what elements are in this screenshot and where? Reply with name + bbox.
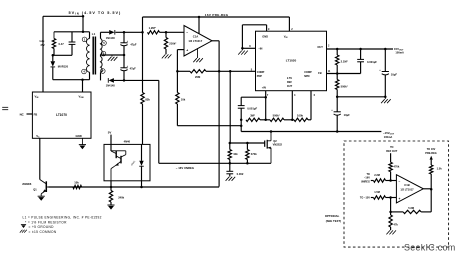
label 470k [251,152,257,156]
label 47uF lower [127,65,137,71]
svg-text:1.5k: 1.5k [437,167,443,171]
wire -15V rail [241,131,381,133]
junction 16V feed [141,31,144,34]
pin GND LT1070 [76,134,82,138]
regulator U3 LT1020 box [256,31,327,90]
ground 0.002 [226,177,236,181]
wire row right up [308,119,311,121]
wire top rectifier output [116,31,143,33]
svg-text:FB: FB [318,71,322,75]
resistor 2.2M [371,179,397,182]
wire pin4 drop [291,91,293,120]
svg-text:470k: 470k [394,165,400,169]
svg-text:PRE-REG: PRE-REG [425,152,436,155]
op-amp U1 LT1070 box [32,92,91,138]
junction VSW [81,78,84,81]
svg-text:47k: 47k [394,222,399,226]
wire -16V UNREG rail [159,162,271,164]
junction 470k bottom [246,162,249,165]
resistor 1.5M [371,196,397,199]
svg-text:0.47: 0.47 [59,42,65,46]
svg-text:5V: 5V [108,131,112,135]
label -15VOUT [383,131,395,139]
svg-text:C1B: C1B [404,183,409,187]
svg-text:GND: GND [262,34,268,38]
pin 4 primary bottom [82,69,87,74]
wire secondary top to diode [101,31,110,33]
svg-text:TO: TO [390,146,393,149]
label 216k [169,42,177,46]
junction gate rail [229,142,232,145]
svg-text:5VIN (4.5V TO 5.5V): 5VIN (4.5V TO 5.5V) [69,11,122,16]
mark left margin [2,107,8,109]
pin 4 REF OUT [287,77,296,97]
capacitor 47uF upper [120,32,127,55]
svg-text:+: + [399,197,401,201]
label MUR120 [58,64,69,68]
label L1 [92,32,96,36]
svg-text:100mA: 100mA [395,51,404,55]
junction 216k top [165,31,168,34]
wire gate drive drop [229,71,231,143]
optocoupler U2 4N46 box [104,144,150,180]
transistor Q1 2N3906 [40,180,49,197]
svg-text:−IN: −IN [258,47,262,51]
svg-text:1/2 LT1017: 1/2 LT1017 [400,188,414,192]
label 100k [297,113,303,117]
svg-text:100k: 100k [297,113,303,117]
junction 500k bottom [336,96,339,99]
label 47uF upper [127,40,137,47]
svg-text:LT1020: LT1020 [286,59,297,63]
svg-text:1.2M*: 1.2M* [149,26,157,30]
svg-text:500k*: 500k* [273,113,281,117]
svg-text:(SEE TEXT): (SEE TEXT) [326,219,341,223]
svg-text:2.1M*: 2.1M* [341,59,349,63]
wire pin7 drop [265,91,267,120]
junction C1A out 20M [218,70,221,73]
junction row pin4 [291,119,294,122]
svg-text:0.001µF: 0.001µF [247,106,257,110]
resistor 2.1M [336,49,339,74]
transistor opto darlington [111,151,126,181]
svg-text:VN2222: VN2222 [273,143,283,147]
capacitor 47uF lower [120,55,127,80]
wire OUT rail [327,48,394,50]
label 500k FB [341,84,349,88]
svg-text:NPN: NPN [304,75,309,78]
label OPTIONAL [325,214,341,223]
wire left VIN rail down [42,16,44,92]
svg-text:10k: 10k [181,98,186,102]
junction LED cathode [140,186,143,189]
label TO REF OUT [386,146,397,153]
label 20M [195,75,201,79]
pin VC LT1070 [36,134,40,139]
label -16V UNREG [176,166,194,170]
arrow 16V supply [430,156,433,160]
svg-text:47µF: 47µF [130,42,137,46]
label 10k sense [181,98,186,102]
svg-text:MUR120: MUR120 [58,64,69,68]
junction C1B plus [389,196,392,199]
svg-text:−: − [399,180,401,184]
label opto LED [130,160,136,167]
svg-text:1N4148: 1N4148 [106,36,116,40]
junction cap2 bottom [123,79,126,82]
transformer core [93,37,95,75]
svg-text:OUT: OUT [317,45,323,49]
diode 1N4148 top [109,30,115,35]
capacitor 0.47 [69,32,76,56]
diode opto LED [139,144,143,187]
pin 9 GND [242,25,270,49]
label Q1 2N3906 [22,182,37,192]
ground LT1020 -IN [238,48,248,54]
junction -15V cap [336,130,339,133]
resistor 1.5k [430,160,433,190]
pin 7 +IN [262,86,269,97]
label NC [20,113,25,117]
label 10uF minus [331,109,350,117]
ground output [381,97,391,103]
wire snubber top rail [54,31,90,33]
wire -16V drop [158,80,160,163]
label 2.1M [341,59,349,63]
resistor 470k [246,143,249,163]
svg-text:UNREG: UNREG [361,180,370,183]
resistor 10k base [73,185,82,188]
inductor L1 secondary lower [101,57,103,81]
svg-text:20M: 20M [195,75,201,79]
svg-text:2.2M: 2.2M [374,173,380,177]
pin 11 FB [318,70,331,75]
resistor 216k [164,32,167,54]
label 10k base [74,180,79,184]
junction cap1 top [123,31,126,34]
svg-text:TO −15V: TO −15V [360,197,370,200]
svg-text:OPTIONAL: OPTIONAL [325,214,340,218]
label 15VOUT [394,47,404,55]
junction 10k bottom [229,162,232,165]
label 470k ref [394,165,400,169]
svg-text:SeekIC.com: SeekIC.com [404,243,456,253]
junction center tap cap [123,54,126,57]
svg-text:1.2k: 1.2k [39,39,45,43]
pin VSW LT1070 [79,94,84,99]
pin 5 COMP PNP [251,68,265,77]
svg-text:470k: 470k [251,152,257,156]
junction primary top [82,31,85,34]
capacitor 0.001uF FB [357,49,364,74]
svg-text:4N46: 4N46 [124,140,131,144]
label 0.001uF FB [367,60,377,64]
ground 47k [386,230,396,234]
svg-text:REF: REF [287,81,292,84]
label 47k [394,222,399,226]
note film resistor [25,220,67,224]
svg-text:0.001µF: 0.001µF [367,60,377,64]
junction 0.001uF top [359,48,362,51]
resistor 10k gate [228,143,231,163]
note common [20,230,57,234]
wire 16V PRE-REG rail [143,17,290,32]
ground transformer center [108,55,118,61]
diode 1N4148 bottom [108,78,114,83]
resistor 47k [389,215,392,230]
wire 10k to -15V column [177,125,241,127]
capacitor 10uF minus [334,97,341,132]
note 5V ground [21,225,54,230]
svg-text:COMP: COMP [304,71,312,74]
label 1.5k [437,167,443,171]
op-amp C1B [396,175,423,203]
svg-text:REF OUT: REF OUT [386,150,397,153]
pin 2 VIN [284,17,294,39]
boundary optional dashed box [344,141,449,247]
pin 1 primary top [82,37,87,42]
svg-text:LT1070: LT1070 [56,113,67,117]
resistor 100k [294,118,308,121]
wire opto collector [110,135,112,151]
svg-text:Q1: Q1 [33,188,37,192]
svg-text:2N3906: 2N3906 [22,182,32,186]
junction feedback plus [389,211,392,214]
wire row mid [260,119,270,121]
junction C1B out [430,188,433,191]
transistor Q2 VN2222 [265,132,271,164]
resistor 1.2k 2W [52,32,55,56]
resistor 500k FB [336,74,339,97]
junction -IN ground [241,47,244,50]
svg-text:216k*: 216k* [169,42,177,46]
junction C1A feedback [176,70,179,73]
svg-text:GND: GND [76,134,82,138]
label 1.5M [374,190,380,194]
junction C1B minus [389,179,392,182]
label 0.47 [59,42,65,46]
resistor 82k [141,32,144,144]
svg-text:10µF: 10µF [391,72,398,76]
label TO -15V [360,197,370,200]
svg-text:16V PRE-REG: 16V PRE-REG [205,13,229,17]
svg-text:Q2: Q2 [273,139,277,143]
wire 5VIN top rail [43,15,83,17]
wire C1B feedback drop [430,189,432,212]
wire C1A supply [198,17,200,34]
svg-text:2W: 2W [41,43,45,47]
resistor 20M [177,70,219,73]
svg-text:FB: FB [34,112,38,116]
wire COMP PNP to gate [219,70,255,72]
pin VIN LT1070 [35,94,39,99]
label 10k gate [233,152,238,156]
junction Q2 drain [270,130,273,133]
wire FB link [327,73,361,75]
svg-text:L1: L1 [92,32,96,36]
svg-text:0.002: 0.002 [237,172,244,176]
svg-text:+IN: +IN [262,86,266,90]
wire divider to C1A minus [160,31,185,33]
junction row pin7 [264,119,267,122]
junction 10uF1 top [384,48,387,51]
wire snubber bottom [53,54,72,56]
wire gate rail [230,142,265,144]
label 1.2k 2W [39,39,45,47]
svg-text:1N4148: 1N4148 [106,84,116,88]
inductor L1 secondary upper [101,32,103,56]
wire C1B plus column [390,198,392,216]
capacitor 0.001uF left [238,97,245,120]
pin FB LT1070 [27,112,38,116]
label 0.001uF left [247,106,257,110]
label LT1070 [56,113,67,117]
wire VSW drop [82,80,84,92]
label 3M [250,113,256,117]
svg-text:2.5V: 2.5V [287,77,292,80]
wire VC to Q1 [39,138,41,179]
pin 8 -IN [242,45,262,51]
junction row left [240,119,243,122]
svg-text:* = 1% FILM RESISTOR: * = 1% FILM RESISTOR [25,220,67,224]
junction opto emitter [110,186,113,189]
wire 5VIN drop to primary rail [82,16,84,32]
svg-text:TO 16V: TO 16V [427,148,436,151]
resistor 240k [109,187,112,205]
svg-text:COMP: COMP [257,71,265,74]
ground 240k [107,205,114,210]
note L1 [23,215,102,219]
svg-text:TO: TO [366,173,369,176]
label TO 16V PRE-REG [425,148,436,155]
inductor L1 primary winding [87,32,90,80]
svg-text:10k: 10k [74,180,79,184]
node 5VIN label [69,11,122,16]
svg-text:1.5M: 1.5M [374,190,380,194]
label 2.2M [374,173,380,177]
label 5V opto supply [108,131,112,135]
svg-text:−: − [186,31,188,35]
resistor 3M [246,118,260,121]
svg-text:10k: 10k [233,152,238,156]
svg-text:500k*: 500k* [341,84,349,88]
label LT1020 [286,59,297,63]
svg-text:PNP: PNP [257,75,262,78]
wire C1A output [212,41,219,187]
wire Q1 base rail [49,186,220,188]
label 4N46 [124,140,131,144]
capacitor 10uF plus [382,49,389,97]
label 1.2M [149,26,157,30]
junction 10k line [240,124,243,127]
wire secondary center tap [101,54,125,56]
wire C1A plus input [177,50,184,72]
pin 6 secondary center [101,51,106,56]
svg-text:5.6M: 5.6M [408,206,414,210]
resistor 5.6M [391,210,432,213]
pin 5 secondary top [102,41,107,46]
svg-text:1/2 LT1017: 1/2 LT1017 [188,39,202,43]
junction snubber bottom [52,54,55,57]
ground Q1 emitter [38,196,45,201]
svg-text:− 16V UNREG: − 16V UNREG [176,166,194,170]
svg-text:47µF: 47µF [130,67,137,71]
wire row mid2 [284,119,294,121]
label TO -16V UNREG [361,173,370,184]
label 240k [118,195,124,199]
svg-text:82k: 82k [145,98,150,102]
label Q2 VN2222 [273,139,283,147]
pin 6 COMP NPN [304,71,315,97]
wire pin6 drop [310,91,312,120]
svg-text:+: + [186,49,188,53]
svg-text:= ±15 COMMON: = ±15 COMMON [29,230,57,234]
svg-text:−16V: −16V [364,177,370,180]
watermark SeekIC.com [404,243,456,253]
wire VSW bottom rail [53,79,90,81]
resistor 470k ref [389,153,392,180]
wire -15V column [240,120,242,132]
pin 7 secondary bottom [101,69,106,74]
label 5.6M [408,206,414,210]
diode MUR120 [50,55,55,79]
label 10uF plus [379,69,397,76]
capacitor 0.002 [226,163,233,176]
junction pin7 top link [264,96,267,99]
junction C1A supply [198,16,201,19]
wire C1B output [423,188,431,190]
wire opto emitter stub [110,181,112,187]
junction 5VIN [82,15,85,18]
label 1N4148 top [106,36,116,40]
label 500k row [273,113,281,117]
op-amp C1A [184,26,212,57]
label 1N4148 bottom [106,84,116,88]
ground C1A [193,48,203,62]
label 0.002 [237,172,244,176]
resistor 10k sense [176,71,179,125]
svg-text:OUT: OUT [287,85,293,88]
junction 470k top [246,142,249,145]
label 82k [145,98,150,102]
wire negative rectifier rail [114,79,159,81]
svg-text:240k: 240k [118,195,124,199]
label 16V PRE-REG [205,13,229,17]
pin 12 OUT [317,44,330,49]
wire ground rail out [337,96,385,98]
resistor 1.2M [148,31,160,34]
svg-text:C1A: C1A [193,34,199,38]
ground 216k [162,54,172,58]
wire +IN top link [241,96,266,98]
svg-text:L1 = PULSE ENGINEERING, INC.: L1 = PULSE ENGINEERING, INC. # PE-61592 [23,215,102,219]
resistor 500k row [270,118,284,121]
svg-text:10µF: 10µF [344,113,351,117]
ground LT1070 GND [79,138,86,149]
svg-text:100mA: 100mA [384,135,393,139]
junction 10uF1 bottom [384,96,387,99]
junction FB node [336,72,339,75]
svg-text:= +5 GROUND: = +5 GROUND [29,225,55,229]
junction FB column top [336,48,339,51]
junction gate drive [229,70,232,73]
